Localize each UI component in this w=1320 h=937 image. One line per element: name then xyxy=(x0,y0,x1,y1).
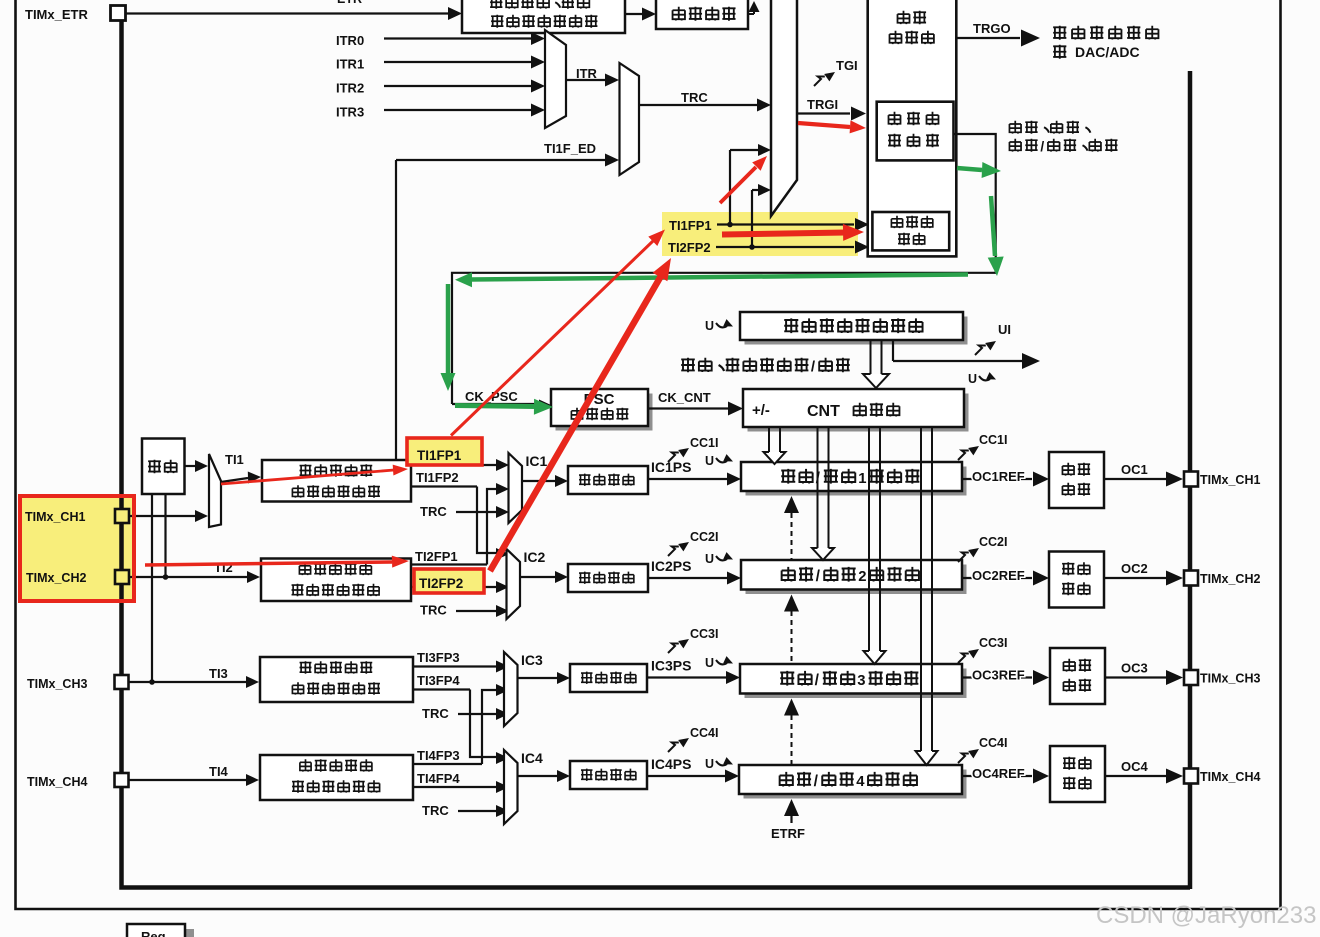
red arrow TRGI to slave mode xyxy=(798,123,850,127)
svg-text:TRC: TRC xyxy=(420,603,447,618)
wire TI2 xyxy=(129,576,248,578)
red arrow diagonal to mux input xyxy=(720,167,756,203)
svg-text:TI1F_ED: TI1F_ED xyxy=(544,141,596,156)
interrupt symbol CC2I (left) xyxy=(668,547,679,557)
svg-text:ITR: ITR xyxy=(576,66,598,81)
wire IC3PS xyxy=(648,676,728,678)
label TI1FP1 (red box, row1) xyxy=(407,438,482,465)
svg-text:CSDN @JaRyon233: CSDN @JaRyon233 xyxy=(1096,902,1316,929)
wire TI3 xyxy=(129,681,246,683)
wire TRGO xyxy=(956,37,1020,39)
svg-text:OC2REF: OC2REF xyxy=(972,568,1025,583)
red border highlight around TIMx_CH1/CH2 xyxy=(20,496,134,601)
interrupt symbol CC3I (left) xyxy=(668,644,679,654)
interrupt symbol CC1I (left) xyxy=(668,453,679,463)
label stop-clear-updown xyxy=(681,358,695,372)
svg-text:TRGO: TRGO xyxy=(973,21,1011,36)
inner bus frame (thick) xyxy=(122,21,1191,888)
svg-text:IC3: IC3 xyxy=(521,652,543,668)
mux TI1 xyxy=(209,454,221,527)
svg-text:CC4I: CC4I xyxy=(690,726,718,740)
svg-text:TI1: TI1 xyxy=(225,452,244,467)
green arrow long horizontal (to CK_PSC corner) xyxy=(470,275,968,280)
block prescaler IC4 xyxy=(570,761,647,789)
wire IC1 to prescaler xyxy=(522,480,556,482)
pin TIMx_CH2 (right) xyxy=(1184,571,1198,586)
svg-text:CC4I: CC4I xyxy=(979,736,1007,750)
svg-text:3: 3 xyxy=(857,673,865,689)
block XOR xyxy=(142,439,185,495)
interrupt symbol CC4I (left) xyxy=(668,743,679,753)
block PSC prescaler xyxy=(556,394,653,431)
wire TI4 xyxy=(129,779,246,781)
svg-text:TI2FP1: TI2FP1 xyxy=(415,549,458,564)
wire OC4 xyxy=(1105,775,1166,777)
wire IC2 to prescaler xyxy=(520,576,556,578)
svg-text:TIMx_CH4: TIMx_CH4 xyxy=(1200,770,1260,784)
svg-text:ITR2: ITR2 xyxy=(336,81,364,96)
svg-text:U: U xyxy=(705,656,714,670)
pin TIMx_CH1 (right) xyxy=(1184,472,1198,487)
svg-text:OC2: OC2 xyxy=(1121,561,1148,576)
block output control 2 xyxy=(1049,552,1104,608)
block auto-reload register xyxy=(745,317,968,345)
block input filter & edge detector 3 xyxy=(260,657,413,702)
dashed capture chain arrow cap3->cap2 xyxy=(784,595,799,612)
interrupt symbol CC3I (right) xyxy=(958,654,969,664)
red arrow CH2 to TI2FP1 label (row2) xyxy=(145,562,392,565)
wire IC3 to prescaler xyxy=(518,677,559,679)
pin TIMx_CH1 xyxy=(115,509,129,523)
svg-text:TIMx_CH3: TIMx_CH3 xyxy=(1200,672,1260,686)
block input filter & edge detector 4 xyxy=(260,755,413,800)
wire IC4PS xyxy=(648,775,728,777)
pin TIMx_CH3 xyxy=(115,675,129,689)
block input filter (ETR) xyxy=(656,0,748,29)
wire IC2PS xyxy=(648,577,728,579)
svg-text:IC1: IC1 xyxy=(526,453,548,469)
pin TIMx_CH4 xyxy=(115,773,129,787)
hollow arrow CNT to cap1 xyxy=(768,427,770,452)
svg-text:TIMx_CH2: TIMx_CH2 xyxy=(1200,572,1260,586)
svg-text:CC2I: CC2I xyxy=(690,530,718,544)
wire OC2REF xyxy=(962,577,1032,579)
block prescaler IC3 xyxy=(570,664,647,692)
svg-text:OC3REF: OC3REF xyxy=(972,668,1025,683)
svg-text:+/-: +/- xyxy=(752,402,770,419)
svg-text:TI3: TI3 xyxy=(209,666,228,681)
label to other timers / to DAC-ADC xyxy=(1053,26,1066,40)
block input filter & edge detector 1 xyxy=(262,460,411,502)
svg-text:OC3: OC3 xyxy=(1121,661,1148,676)
svg-text:CC3I: CC3I xyxy=(979,636,1007,650)
wire IC1PS xyxy=(648,478,728,480)
red diagonal thin TI1FP1 to TI1FP1 (yellow) xyxy=(451,241,653,436)
svg-text:U: U xyxy=(968,372,977,386)
red arrow thick to encoder interface xyxy=(722,233,846,235)
wire OC1REF xyxy=(962,478,1032,480)
svg-text:TIMx_CH4: TIMx_CH4 xyxy=(27,775,87,789)
mux IC4 xyxy=(504,750,518,824)
svg-text:U: U xyxy=(705,757,714,771)
wire from TI1FP1 to mux xyxy=(730,149,760,151)
svg-text:TI1FP1: TI1FP1 xyxy=(417,448,462,463)
green arrow into PSC xyxy=(455,406,534,407)
svg-text:CC1I: CC1I xyxy=(690,436,718,450)
wire from TI2FP2 to mux xyxy=(752,189,760,191)
highlight TIMx_CH1/CH2 region (yellow) xyxy=(20,496,134,601)
block polarity-select/edge-detect/prescaler (top, clipped) xyxy=(462,0,625,33)
svg-text:TIMx_CH3: TIMx_CH3 xyxy=(27,677,87,691)
highlight encoder TI1FP1/TI2FP2 region (yellow) xyxy=(662,212,858,256)
block prescaler IC2 xyxy=(568,564,648,592)
block slave mode controller xyxy=(877,102,954,161)
svg-text:TRC: TRC xyxy=(422,706,449,721)
wire TI2FP2 to encoder xyxy=(716,246,854,248)
wire TI1FP1 (row1) xyxy=(411,464,496,466)
svg-text:OC4REF: OC4REF xyxy=(972,766,1025,781)
wire OC2 xyxy=(1104,577,1166,579)
svg-text:ETR: ETR xyxy=(337,0,362,6)
wire OC1 xyxy=(1104,478,1166,480)
block capture/compare 1 register xyxy=(746,467,967,496)
svg-text:UI: UI xyxy=(998,322,1011,337)
block output control 4 xyxy=(1050,746,1105,802)
interrupt symbol CC2I (right) xyxy=(958,553,969,563)
svg-text:OC4: OC4 xyxy=(1121,759,1149,774)
svg-text:TI2FP2: TI2FP2 xyxy=(419,576,463,591)
svg-text:U: U xyxy=(705,454,714,468)
block output control 1 xyxy=(1049,452,1104,508)
svg-text:IC1PS: IC1PS xyxy=(651,459,691,475)
wire CK_CNT xyxy=(648,407,728,409)
pin TIMx_CH4 (right) xyxy=(1184,769,1198,784)
wire TRGI xyxy=(797,112,850,114)
green arrow slave-mode out right xyxy=(957,168,982,170)
svg-text:/: / xyxy=(814,773,819,790)
block prescaler IC1 xyxy=(568,466,648,494)
dashed capture chain arrow cap4->cap3 xyxy=(784,699,799,716)
svg-text:OC1: OC1 xyxy=(1121,462,1148,477)
wire IC4 to prescaler xyxy=(518,775,559,777)
interrupt symbol UI xyxy=(975,346,986,356)
wire XOR input taps xyxy=(151,494,153,682)
block capture/compare 3 register xyxy=(745,669,967,699)
pin TIMx_CH3 (right) xyxy=(1184,670,1198,685)
mux TRC select xyxy=(620,63,640,175)
block capture/compare 4 register xyxy=(744,770,967,799)
svg-text:TRGI: TRGI xyxy=(807,97,838,112)
svg-text:/: / xyxy=(815,672,820,689)
wire TIMx_CH1 to mux xyxy=(129,515,196,517)
inner frame right edge xyxy=(1188,71,1193,889)
svg-text:Reg: Reg xyxy=(141,929,166,937)
pin TIMx_CH2 xyxy=(115,570,129,584)
red arrow TI1 to TI1FP1 label (row1) xyxy=(221,470,394,484)
svg-text:ITR0: ITR0 xyxy=(336,33,364,48)
svg-text:TI1FP2: TI1FP2 xyxy=(416,470,459,485)
wire CK_PSC xyxy=(452,403,540,405)
svg-text:U: U xyxy=(705,552,714,566)
svg-text:CC1I: CC1I xyxy=(979,433,1007,447)
block CNT counter xyxy=(748,394,969,432)
svg-text:IC3PS: IC3PS xyxy=(651,658,691,674)
block encoder interface xyxy=(872,212,949,250)
wire slave-mode control path xyxy=(452,134,996,404)
svg-text:2: 2 xyxy=(858,569,866,585)
dashed capture chain arrow cap2->cap1 xyxy=(784,496,799,513)
svg-text:TI2FP2: TI2FP2 xyxy=(668,240,711,255)
svg-text:IC2PS: IC2PS xyxy=(651,558,691,574)
wire ETR xyxy=(125,12,450,14)
svg-text:ITR3: ITR3 xyxy=(336,105,364,120)
svg-text:CC3I: CC3I xyxy=(690,627,718,641)
svg-text:TGI: TGI xyxy=(836,58,858,73)
svg-text:TI3FP4: TI3FP4 xyxy=(417,673,460,688)
svg-text:TI1FP1: TI1FP1 xyxy=(669,218,712,233)
svg-text:TIMx_CH1: TIMx_CH1 xyxy=(1200,473,1260,487)
svg-text:/: / xyxy=(816,568,821,585)
mux IC3 xyxy=(504,652,518,726)
label TI2FP2 (red box, row2) xyxy=(414,569,484,593)
svg-text:CK_CNT: CK_CNT xyxy=(658,390,711,405)
block output control 3 xyxy=(1050,648,1105,704)
svg-text:CNT: CNT xyxy=(807,403,840,420)
green arrow vertical down to CK_PSC xyxy=(446,284,451,374)
svg-text:TRC: TRC xyxy=(681,90,708,105)
svg-text:TIMx_CH1: TIMx_CH1 xyxy=(25,510,85,524)
hollow arrow CNT to cap4 xyxy=(920,427,922,751)
interrupt symbol TGI xyxy=(814,77,825,87)
wire ETRF up (clipped) xyxy=(748,13,754,15)
red diagonal thick TI2FP2 to TI2FP2 (yellow) xyxy=(490,276,661,571)
wire ETRF xyxy=(784,799,799,816)
wire TI1FP1 to encoder xyxy=(717,223,854,225)
svg-text:TI4FP3: TI4FP3 xyxy=(417,748,460,763)
svg-text:IC4: IC4 xyxy=(521,750,543,766)
svg-text:OC1REF: OC1REF xyxy=(972,469,1025,484)
block trigger controller (clipped top) xyxy=(868,0,957,256)
interrupt symbol CC1I (right) xyxy=(958,451,969,461)
svg-text:TI4: TI4 xyxy=(209,764,229,779)
wire XOR to TI1 mux xyxy=(185,465,197,467)
svg-text:4: 4 xyxy=(856,774,865,790)
mux ITR select xyxy=(545,30,566,128)
wire update event to right xyxy=(892,340,894,361)
wire OC3 xyxy=(1105,676,1166,678)
hollow arrow CNT to cap3 xyxy=(868,427,870,651)
svg-text:TRC: TRC xyxy=(420,504,447,519)
svg-text:TIMx_CH2: TIMx_CH2 xyxy=(26,571,86,585)
svg-text:DAC/ADC: DAC/ADC xyxy=(1075,44,1140,60)
svg-text:U: U xyxy=(705,319,714,333)
svg-text:TI3FP3: TI3FP3 xyxy=(417,650,460,665)
svg-text:ITR1: ITR1 xyxy=(336,57,364,72)
mux IC1 xyxy=(509,453,523,523)
svg-text:TRC: TRC xyxy=(422,803,449,818)
svg-text:CC2I: CC2I xyxy=(979,535,1007,549)
interrupt symbol CC4I (right) xyxy=(958,754,969,764)
svg-text:ETRF: ETRF xyxy=(771,826,805,841)
svg-text:TI4FP4: TI4FP4 xyxy=(417,771,460,786)
mux IC2 xyxy=(507,549,521,619)
svg-text:IC2: IC2 xyxy=(524,549,546,565)
svg-text:TIMx_ETR: TIMx_ETR xyxy=(25,7,88,22)
block Reg (clipped at bottom) xyxy=(185,929,194,937)
wire TI1 to filter xyxy=(221,478,248,482)
pin TIMx_ETR xyxy=(111,6,126,21)
svg-text:IC4PS: IC4PS xyxy=(651,756,691,772)
block capture/compare 2 register xyxy=(746,565,967,595)
label reset/enable/up-down/count xyxy=(1009,121,1021,134)
wire to input filter xyxy=(625,13,642,15)
wire OC3REF xyxy=(962,676,1032,678)
mux TRGI (tall, clipped at top) xyxy=(771,0,797,216)
wire OC4REF xyxy=(962,775,1032,777)
block input filter & edge detector 2 xyxy=(261,559,411,602)
hollow arrow CNT to cap2 xyxy=(817,427,819,548)
svg-text:1: 1 xyxy=(858,471,866,487)
wire TI2FP2 (row2) xyxy=(411,586,496,588)
svg-text:/: / xyxy=(1040,139,1044,154)
green arrow vertical down right xyxy=(991,196,995,256)
hollow arrow auto-reload to CNT xyxy=(870,341,872,374)
